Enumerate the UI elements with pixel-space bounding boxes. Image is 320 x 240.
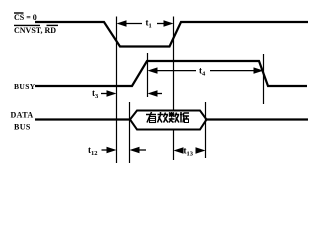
- node marker line L5 (BUSY falling edge): [263, 54, 265, 104]
- svg-text:t13: t13: [184, 146, 194, 158]
- svg-text:CS = 0: CS = 0: [14, 13, 37, 22]
- wire DATA BUS line (right): [207, 118, 309, 120]
- node marker line L2 (data valid start): [129, 102, 131, 163]
- node valid-data hexagon: [130, 111, 207, 130]
- char 有: [146, 112, 156, 123]
- svg-text:DATA: DATA: [11, 111, 34, 120]
- node CS=0 label: [14, 13, 37, 22]
- svg-text:t4: t4: [199, 66, 206, 78]
- dimension t3: [92, 88, 162, 100]
- node valid-data Chinese text (hand-drawn strokes): [146, 112, 189, 123]
- node marker line L6 (data valid end): [205, 102, 207, 158]
- wire CNVST/RD waveform: [35, 22, 308, 47]
- char 效: [158, 112, 169, 123]
- dimension t13: [174, 146, 206, 158]
- node CNVST, RD label: [14, 25, 58, 35]
- char 数: [169, 112, 179, 123]
- wire BUSY waveform: [35, 61, 307, 86]
- svg-text:t3: t3: [92, 88, 99, 100]
- svg-text:t1: t1: [146, 18, 152, 30]
- dimension t4: [148, 66, 264, 78]
- dimension t1: [117, 18, 174, 30]
- node marker line L1 (CNVST falling edge): [116, 17, 118, 164]
- node DATA BUS label: [11, 111, 34, 132]
- dimension t12: [88, 145, 146, 157]
- char 据: [180, 112, 189, 123]
- svg-text:BUS: BUS: [14, 123, 31, 132]
- svg-text:t12: t12: [88, 145, 98, 157]
- svg-text:BUSY: BUSY: [14, 82, 36, 91]
- wire DATA BUS line (left): [35, 118, 130, 120]
- node marker line L3 (BUSY rising edge): [147, 53, 149, 97]
- svg-text:CNVST, RD: CNVST, RD: [14, 26, 56, 35]
- node marker line L4 (CNVST rising edge): [173, 17, 175, 111]
